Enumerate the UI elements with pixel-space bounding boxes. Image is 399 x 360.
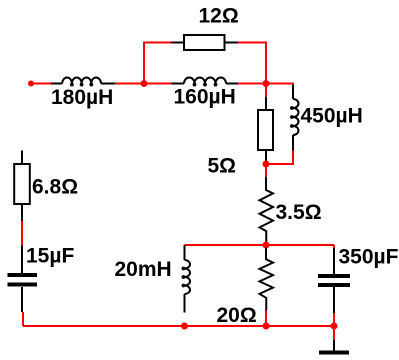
label 12Ω xyxy=(199,5,239,28)
svg-text:20Ω: 20Ω xyxy=(217,304,257,327)
svg-text:450µH: 450µH xyxy=(301,105,363,128)
label 6.8Ω xyxy=(32,176,78,199)
svg-text:6.8Ω: 6.8Ω xyxy=(32,176,78,199)
wire xyxy=(266,151,293,165)
inductor 450µH xyxy=(290,85,299,151)
wire xyxy=(238,43,266,84)
label 350µF xyxy=(339,246,399,269)
svg-text:20mH: 20mH xyxy=(115,258,172,281)
wire xyxy=(185,244,335,246)
junction xyxy=(263,242,270,249)
svg-text:15µF: 15µF xyxy=(26,245,74,268)
inductor 180µH xyxy=(51,78,115,87)
wire xyxy=(265,245,267,248)
resistor 3.5Ω xyxy=(260,177,274,245)
wire xyxy=(144,43,171,84)
label 160µH xyxy=(174,86,236,109)
junction xyxy=(141,80,148,87)
resistor 5Ω xyxy=(258,97,273,162)
junction xyxy=(263,161,270,168)
wire xyxy=(23,325,334,327)
junction xyxy=(263,323,270,330)
svg-text:160µH: 160µH xyxy=(174,86,236,109)
junction xyxy=(331,323,338,330)
wire xyxy=(238,84,293,86)
label 180µH xyxy=(51,86,113,109)
label 15µF xyxy=(26,245,74,268)
junction xyxy=(263,80,270,87)
svg-text:5Ω: 5Ω xyxy=(208,155,237,178)
resistor 6.8Ω xyxy=(14,151,30,222)
capacitor 350µF xyxy=(318,248,350,313)
ground xyxy=(319,340,349,353)
junction xyxy=(181,323,188,330)
svg-text:3.5Ω: 3.5Ω xyxy=(276,201,322,224)
inductor 20mH xyxy=(182,245,191,313)
wire xyxy=(265,162,267,177)
svg-text:180µH: 180µH xyxy=(51,86,113,109)
wire xyxy=(265,84,267,98)
label 3.5Ω xyxy=(276,201,322,224)
label 20Ω xyxy=(217,304,257,327)
wire xyxy=(21,221,23,246)
label 5Ω xyxy=(208,155,237,178)
label 20mH xyxy=(115,258,172,281)
svg-text:350µF: 350µF xyxy=(339,246,399,269)
wire xyxy=(333,245,335,248)
inductor 160µH xyxy=(172,78,239,87)
svg-text:12Ω: 12Ω xyxy=(199,5,239,28)
wire xyxy=(22,312,24,326)
wire xyxy=(333,313,335,340)
wire xyxy=(31,83,51,85)
node IN terminal xyxy=(28,81,34,87)
resistor 12Ω xyxy=(171,35,238,50)
label 450µH xyxy=(301,105,363,128)
resistor 20Ω xyxy=(260,248,274,311)
wire xyxy=(265,311,267,327)
wire xyxy=(115,83,172,85)
capacitor 15µF xyxy=(8,246,38,313)
